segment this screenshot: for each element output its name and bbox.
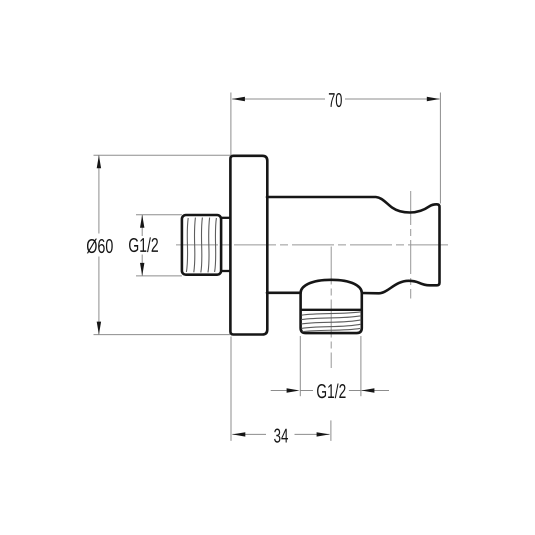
dim 34: text: [274, 429, 288, 443]
inlet connector G1/2 (left, threaded): [182, 215, 221, 275]
dim 34: left arrowhead: [232, 432, 245, 436]
horizontal centerline (body axis): [176, 244, 448, 246]
dim 70: left extension line: [230, 93, 232, 156]
bottom outlet dome: [301, 280, 362, 293]
dim 70: text: [329, 93, 342, 107]
dim G1/2 left: bottom extension line: [136, 275, 182, 277]
dim G1/2 left: bottom arrow shaft: [141, 255, 143, 276]
dim 34: line right segment: [295, 433, 330, 435]
dim G1/2 bottom: left arrowhead: [287, 388, 300, 392]
left connector thread line 1: [186, 218, 188, 272]
left connector thread line 2: [194, 218, 196, 273]
dim G1/2 bottom: left extension line: [299, 336, 301, 396]
dim G1/2 bottom: right extension line: [360, 336, 362, 396]
bottom connector thread line 2: [301, 316, 361, 320]
dim 70: line right segment: [345, 98, 440, 100]
dim Ø60: bottom arrowhead: [97, 322, 101, 335]
dim Ø60: top arrowhead: [97, 155, 101, 168]
bottom outlet thread separator line: [301, 309, 362, 311]
dim 70: right arrowhead: [427, 97, 440, 101]
dim Ø60: bottom extension line: [94, 334, 231, 336]
bottom connector thread line 3: [301, 320, 361, 324]
dim Ø60: text: [87, 239, 113, 254]
dim 34: right extension tick: [330, 420, 332, 441]
dim 70: line left segment: [232, 98, 325, 100]
dim G1/2 bottom: right outer shaft: [362, 390, 390, 392]
dim 70: right extension line: [439, 93, 441, 204]
body bottom edge left segment: [267, 291, 301, 294]
dim Ø60: line bottom segment: [98, 257, 100, 335]
dim G1/2 bottom: right inner segment: [349, 390, 361, 392]
left connector thread line 3: [201, 218, 203, 273]
dim 34: right arrowhead: [317, 432, 330, 436]
dim Ø60: top extension line: [94, 154, 231, 156]
collar top line: [221, 217, 230, 219]
body and holder outline: [267, 197, 440, 293]
left connector thread line 4: [208, 218, 210, 273]
dim 34: left extension line: [230, 337, 232, 441]
dim G1/2 left: top arrow shaft: [141, 215, 143, 236]
bottom connector thread line 4: [302, 324, 362, 328]
dim 70: left arrowhead: [232, 97, 245, 101]
dim G1/2 bottom: left outer shaft: [271, 390, 287, 392]
dim G1/2 left: top arrowhead: [140, 215, 144, 228]
dim G1/2 left: text: [129, 237, 158, 252]
vertical centerline (holder axis): [410, 191, 412, 299]
left connector thread line 5: [215, 218, 217, 272]
dim 34: line left segment: [232, 433, 266, 435]
dim G1/2 bottom: text: [317, 384, 346, 399]
dim G1/2 bottom: left inner segment: [300, 390, 313, 392]
dim Ø60: line top segment: [98, 156, 100, 234]
dim G1/2 left: top extension line: [136, 214, 182, 216]
bottom connector thread line 1: [302, 312, 362, 315]
bottom connector thread line 5: [303, 328, 361, 331]
vertical centerline (bottom outlet axis): [330, 247, 332, 369]
bottom outlet nut: [301, 293, 362, 333]
dim G1/2 bottom: right arrowhead: [361, 388, 374, 392]
dim G1/2 left: bottom arrowhead: [140, 263, 144, 276]
collar bottom line: [221, 270, 230, 272]
wall flange plate: [230, 156, 267, 335]
